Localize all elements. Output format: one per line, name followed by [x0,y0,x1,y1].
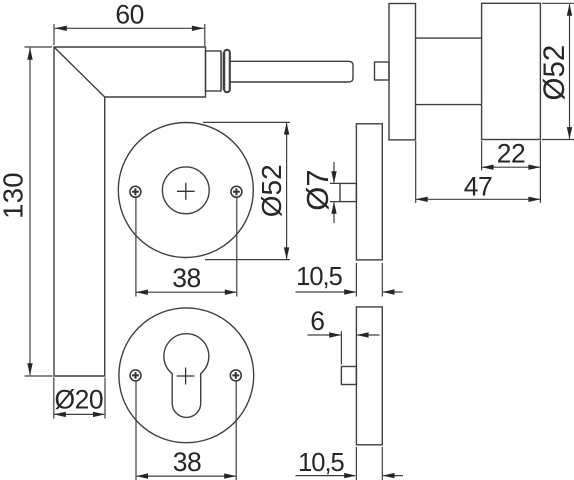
bottom strip stub [341,367,356,385]
bottom rose center cross [177,368,195,385]
dim 38 bottom extension lines [136,381,236,480]
svg-text:Ø52: Ø52 [256,164,287,217]
top rose center cross [177,183,195,200]
dim 60 extension lines [54,24,205,46]
svg-text:Ø7: Ø7 [300,169,335,210]
top rose side view strip [356,124,382,260]
dim Ø52 knob extension lines [542,3,574,139]
dim 38 top line [137,291,237,293]
svg-text:10,5: 10,5 [296,263,342,291]
arrowheads dim Ø52 top rose [284,123,289,135]
dim 130 line [29,48,31,376]
dim 38 top extension lines [136,198,237,297]
top rose inner circle [162,167,209,214]
arrowheads dim 22 [482,165,494,170]
svg-text:60: 60 [115,0,143,30]
arrowheads dim 6 [329,332,341,337]
screw top-right [231,186,242,197]
svg-text:Ø20: Ø20 [55,385,104,415]
top strip Ø7 stub [340,183,356,201]
dim 47 extension line left [415,141,417,203]
side view knob Ø52 [482,3,541,139]
dim Ø52 knob line [569,4,571,139]
dim 22 line [482,166,539,168]
arrowheads dim 38 top [136,290,148,295]
dim 10,5 top lines [296,291,403,293]
arrowheads dim Ø52 knob [567,4,572,16]
arrowheads dim 47 [416,197,428,202]
side view rose plate (top right) [389,4,416,140]
dim Ø20 line [55,413,105,415]
dim Ø7 lines and ticks [330,162,340,223]
svg-text:10,5: 10,5 [298,449,344,477]
dim 10,5 top extension lines [356,263,382,297]
side view spindle stub square [375,62,390,80]
collar thin ring [221,52,223,90]
svg-text:38: 38 [172,263,200,293]
bottom rose side view strip [356,307,382,445]
dim Ø52 top-rose line [286,123,288,259]
bottom rose outer circle [119,308,254,443]
dim 10,5 bottom extension lines [356,447,382,480]
svg-text:6: 6 [310,306,324,336]
screw bottom-right [230,370,241,381]
top rose outer circle [118,123,253,258]
arrowheads dim Ø7 [331,171,336,183]
arrowheads dim Ø20 [54,412,66,417]
svg-text:130: 130 [0,172,28,219]
lever neck collar rectangle [206,51,222,91]
dim 38 bottom line [137,475,236,477]
arrowheads dim 60 [55,26,67,31]
dim 6 line and extension [308,331,380,364]
spindle rod [230,61,353,82]
svg-text:Ø52: Ø52 [538,45,571,101]
arrowheads dim 38 bottom [136,473,148,478]
dim 130 extension lines [25,47,53,376]
lever handle front view outline [54,47,206,376]
svg-text:22: 22 [497,139,525,169]
arrowheads dim 130 [27,48,32,60]
arrowheads dim 10,5 bottom [344,473,356,478]
euro profile cylinder cutout [164,334,209,418]
arrowheads dim 10,5 top [344,289,356,294]
svg-text:38: 38 [173,447,201,477]
side view neck cylinder lines [416,38,482,105]
svg-text:47: 47 [464,172,492,202]
screw top-left [130,186,141,197]
dim 60 line [55,27,204,29]
lever neck diagonal [54,47,105,97]
dim 10,5 bottom lines [296,475,404,477]
collar bead [224,50,230,92]
dim 22 extension lines [482,141,541,203]
dim 47 line [416,198,539,200]
dim Ø20 extension lines [54,378,105,419]
dim Ø52 top-rose extension lines [203,122,290,259]
screw bottom-left [130,370,141,381]
